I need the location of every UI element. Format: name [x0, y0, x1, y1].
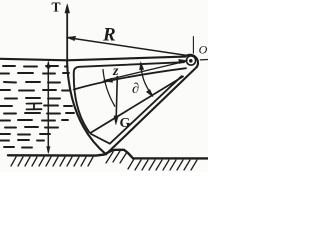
ground hatching	[11, 151, 197, 170]
force T arrowhead	[65, 4, 70, 13]
member A	[74, 68, 186, 89]
water surface line	[0, 59, 67, 61]
dimension H arrowhead bottom	[47, 147, 50, 154]
dimension z arrowhead left	[103, 78, 113, 82]
wire top edge of gate	[67, 57, 185, 61]
force R arrowhead	[66, 36, 76, 40]
force R line	[69, 38, 190, 56]
gate corner lobe around hinge	[185, 55, 198, 67]
wire axis line right of hinge	[200, 59, 208, 61]
dimension z line	[105, 61, 187, 81]
force G line	[116, 77, 117, 122]
force T line	[66, 7, 68, 60]
force G arrowhead	[114, 116, 118, 125]
gate inner top edge and inner left edge	[74, 62, 184, 132]
hinge O circle	[186, 56, 195, 65]
svg-text:T: T	[52, 0, 61, 15]
svg-text:z: z	[112, 64, 119, 79]
alpha arc arrowhead top	[140, 62, 144, 70]
wire axis line above hinge	[192, 37, 194, 54]
svg-text:R: R	[102, 25, 116, 46]
alpha arc arrowhead bottom	[146, 89, 153, 96]
dimension H line	[47, 63, 49, 152]
water dashes	[0, 66, 74, 148]
gate outer left edge	[67, 60, 106, 154]
ground line	[8, 150, 208, 159]
svg-text:G: G	[120, 116, 131, 131]
alpha angle arc	[141, 64, 152, 95]
label H rotated	[27, 103, 42, 109]
gate inner bottom cutout (V notch + inner hypotenuse)	[91, 76, 182, 144]
svg-text:O: O	[199, 42, 208, 56]
dimension H arrowhead top	[47, 61, 50, 68]
svg-text:∂: ∂	[132, 81, 139, 97]
dimension z arrowhead right	[179, 59, 188, 63]
member B	[90, 77, 183, 134]
gate hypotenuse outer edge	[106, 67, 197, 154]
hinge O pin dot	[189, 59, 193, 63]
big arc from z tip to member B	[103, 70, 115, 107]
